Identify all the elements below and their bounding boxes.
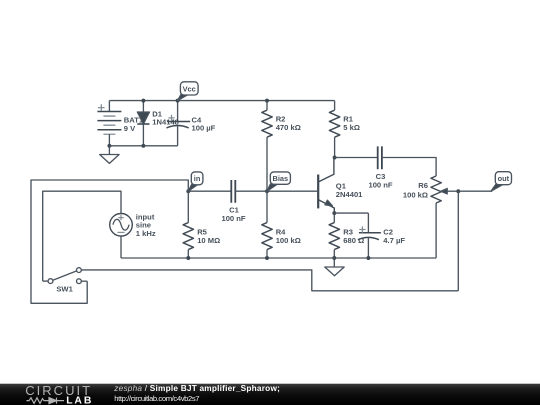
resistor R3 (329, 213, 339, 258)
wire C3 to R6 top (382, 158, 436, 177)
node battery bottom (107, 144, 111, 148)
wire wiper to out flag (458, 190, 492, 192)
flag Vcc (178, 82, 198, 101)
svg-text:http://circuitlab.com/c4vb2s7: http://circuitlab.com/c4vb2s7 (114, 394, 199, 403)
svg-text:SW1: SW1 (56, 285, 73, 294)
svg-text:100 kΩ: 100 kΩ (403, 190, 428, 199)
label Q1 2N4401 (336, 182, 363, 199)
node R6 wiper junction (456, 189, 460, 193)
label C4 100uF (192, 115, 216, 132)
label SW1 (56, 285, 73, 294)
svg-text:1 kHz: 1 kHz (136, 229, 156, 238)
node in (186, 189, 190, 193)
svg-text:Vcc: Vcc (183, 84, 196, 93)
svg-text:LAB: LAB (66, 395, 93, 405)
wire battery top stub (108, 101, 110, 112)
node R1 bottom junction (333, 156, 337, 160)
wire collector to C3 (335, 157, 378, 159)
potentiometer R6 (431, 176, 458, 258)
label R1 5k (343, 115, 360, 133)
wire emitter to C2 (334, 212, 368, 214)
wire out node down (457, 191, 459, 291)
capacitor C2 (358, 213, 381, 258)
label R4 100k (276, 228, 301, 245)
svg-text:680 Ω: 680 Ω (343, 236, 364, 245)
label BAT1 9V (124, 116, 144, 133)
label D1 1N4148 (152, 109, 179, 126)
ground battery (100, 146, 119, 164)
svg-text:100 nF: 100 nF (368, 181, 392, 190)
resistor R1 (329, 101, 339, 158)
svg-text:10 MΩ: 10 MΩ (197, 236, 220, 245)
label R2 470k (276, 115, 301, 133)
flag out (491, 172, 512, 192)
diode D1 (137, 101, 149, 146)
wire C1 to Q1 base (235, 190, 318, 192)
label R3 680 (343, 228, 364, 245)
wire battery bottom rail (109, 145, 177, 147)
label input sine 1kHz (136, 212, 156, 238)
svg-text:zespha / Simple BJT amplifier_: zespha / Simple BJT amplifier_Spharow; (113, 383, 280, 393)
node R4 bottom (265, 256, 269, 260)
wire bottom jog to switch (81, 270, 458, 291)
node D1 top (141, 99, 145, 103)
svg-text:100 kΩ: 100 kΩ (276, 236, 301, 245)
node emitter junction (332, 211, 336, 215)
label R5 10M (197, 228, 220, 245)
battery BAT1 (97, 104, 121, 146)
wire switch throw to outer loop (31, 180, 188, 303)
svg-text:100 nF: 100 nF (221, 214, 245, 223)
node C2 bottom (366, 256, 370, 260)
svg-text:out: out (498, 174, 510, 183)
svg-text:2N4401: 2N4401 (336, 190, 363, 199)
svg-text:9 V: 9 V (124, 124, 136, 133)
node R3 bottom (332, 256, 336, 260)
label R6 100k (403, 181, 428, 199)
svg-text:in: in (194, 174, 201, 183)
label C2 4.7uF (383, 228, 405, 245)
node Bias (265, 189, 269, 193)
source V1 sine (43, 191, 133, 281)
label C1 100nF (221, 205, 245, 223)
capacitor C4 (167, 101, 191, 146)
svg-text:5 kΩ: 5 kΩ (343, 123, 360, 132)
label C3 100nF (368, 172, 392, 189)
svg-text:C1: C1 (229, 205, 239, 214)
svg-text:R6: R6 (418, 181, 428, 190)
resistor R2 (262, 101, 272, 192)
svg-text:4.7 µF: 4.7 µF (383, 236, 405, 245)
transistor Q1 (318, 158, 334, 214)
wire bottom rail (121, 257, 436, 259)
node R5 bottom (186, 256, 190, 260)
wire in to C1 (188, 190, 231, 192)
node D1 bottom (141, 144, 145, 148)
svg-text:470 kΩ: 470 kΩ (276, 123, 301, 132)
resistor R4 (262, 191, 272, 258)
switch SW1 (43, 268, 87, 284)
wire top rail Vcc (109, 100, 334, 102)
resistor R5 (183, 191, 193, 258)
capacitor C3 (378, 146, 382, 169)
flag in (188, 172, 203, 191)
capacitor C1 (231, 180, 235, 203)
node Vcc junction (176, 99, 180, 103)
ground emitter (325, 258, 344, 276)
svg-text:100 µF: 100 µF (192, 124, 216, 133)
flag Bias (267, 172, 290, 191)
logo zigzag diode glyph (27, 398, 65, 404)
node R2 top (265, 99, 269, 103)
svg-text:Bias: Bias (272, 174, 288, 183)
